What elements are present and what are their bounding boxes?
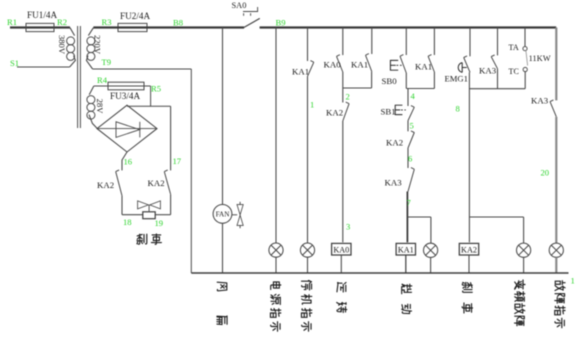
svg-text:KA2: KA2 bbox=[148, 178, 165, 188]
svg-text:18: 18 bbox=[123, 217, 132, 227]
svg-text:FU3/4A: FU3/4A bbox=[110, 91, 140, 101]
svg-text:11KW: 11KW bbox=[529, 54, 551, 63]
svg-text:B8: B8 bbox=[173, 18, 183, 28]
svg-text:5: 5 bbox=[410, 121, 414, 131]
svg-text:S1: S1 bbox=[10, 58, 19, 68]
svg-text:1: 1 bbox=[310, 100, 314, 110]
svg-text:SB1: SB1 bbox=[381, 107, 396, 117]
svg-text:19: 19 bbox=[155, 218, 164, 228]
svg-text:8: 8 bbox=[456, 104, 460, 114]
svg-text:KA2: KA2 bbox=[461, 246, 477, 255]
svg-text:R5: R5 bbox=[151, 84, 161, 94]
svg-text:3: 3 bbox=[346, 222, 350, 232]
svg-text:EMG1: EMG1 bbox=[445, 74, 468, 84]
svg-text:TA: TA bbox=[509, 43, 519, 52]
svg-text:R4: R4 bbox=[97, 75, 108, 85]
svg-text:220V: 220V bbox=[93, 35, 103, 55]
svg-text:T9: T9 bbox=[102, 57, 112, 67]
svg-text:KA1: KA1 bbox=[398, 246, 414, 255]
svg-text:R3: R3 bbox=[102, 17, 112, 27]
svg-text:KA2: KA2 bbox=[386, 138, 403, 148]
svg-text:R2: R2 bbox=[57, 17, 67, 27]
svg-text:TC: TC bbox=[509, 67, 520, 76]
svg-text:380V: 380V bbox=[57, 35, 67, 55]
svg-text:KA1: KA1 bbox=[351, 60, 368, 70]
svg-text:R1: R1 bbox=[7, 17, 17, 27]
svg-text:6: 6 bbox=[408, 154, 413, 164]
svg-text:4: 4 bbox=[411, 91, 416, 101]
svg-text:SB0: SB0 bbox=[382, 76, 398, 86]
svg-text:KA0: KA0 bbox=[333, 246, 349, 255]
svg-text:B9: B9 bbox=[276, 18, 286, 28]
svg-text:KA3: KA3 bbox=[385, 178, 403, 188]
svg-text:FU1/4A: FU1/4A bbox=[27, 10, 57, 20]
svg-text:KA0: KA0 bbox=[324, 60, 342, 70]
svg-text:28V: 28V bbox=[95, 99, 105, 115]
svg-text:KA3: KA3 bbox=[479, 66, 497, 76]
svg-text:KA2: KA2 bbox=[326, 108, 343, 118]
svg-text:2: 2 bbox=[346, 92, 350, 102]
svg-text:7: 7 bbox=[407, 198, 412, 208]
svg-text:1: 1 bbox=[571, 276, 575, 286]
svg-text:FU2/4A: FU2/4A bbox=[120, 11, 150, 21]
svg-text:20: 20 bbox=[541, 168, 550, 178]
svg-text:16: 16 bbox=[124, 157, 133, 167]
svg-text:17: 17 bbox=[173, 156, 182, 166]
svg-text:KA1: KA1 bbox=[415, 62, 432, 72]
svg-text:SA0: SA0 bbox=[232, 1, 247, 10]
svg-text:KA3: KA3 bbox=[531, 96, 549, 106]
svg-text:KA2: KA2 bbox=[97, 180, 114, 190]
svg-text:FAN: FAN bbox=[216, 210, 231, 218]
svg-text:KA1: KA1 bbox=[292, 67, 309, 77]
